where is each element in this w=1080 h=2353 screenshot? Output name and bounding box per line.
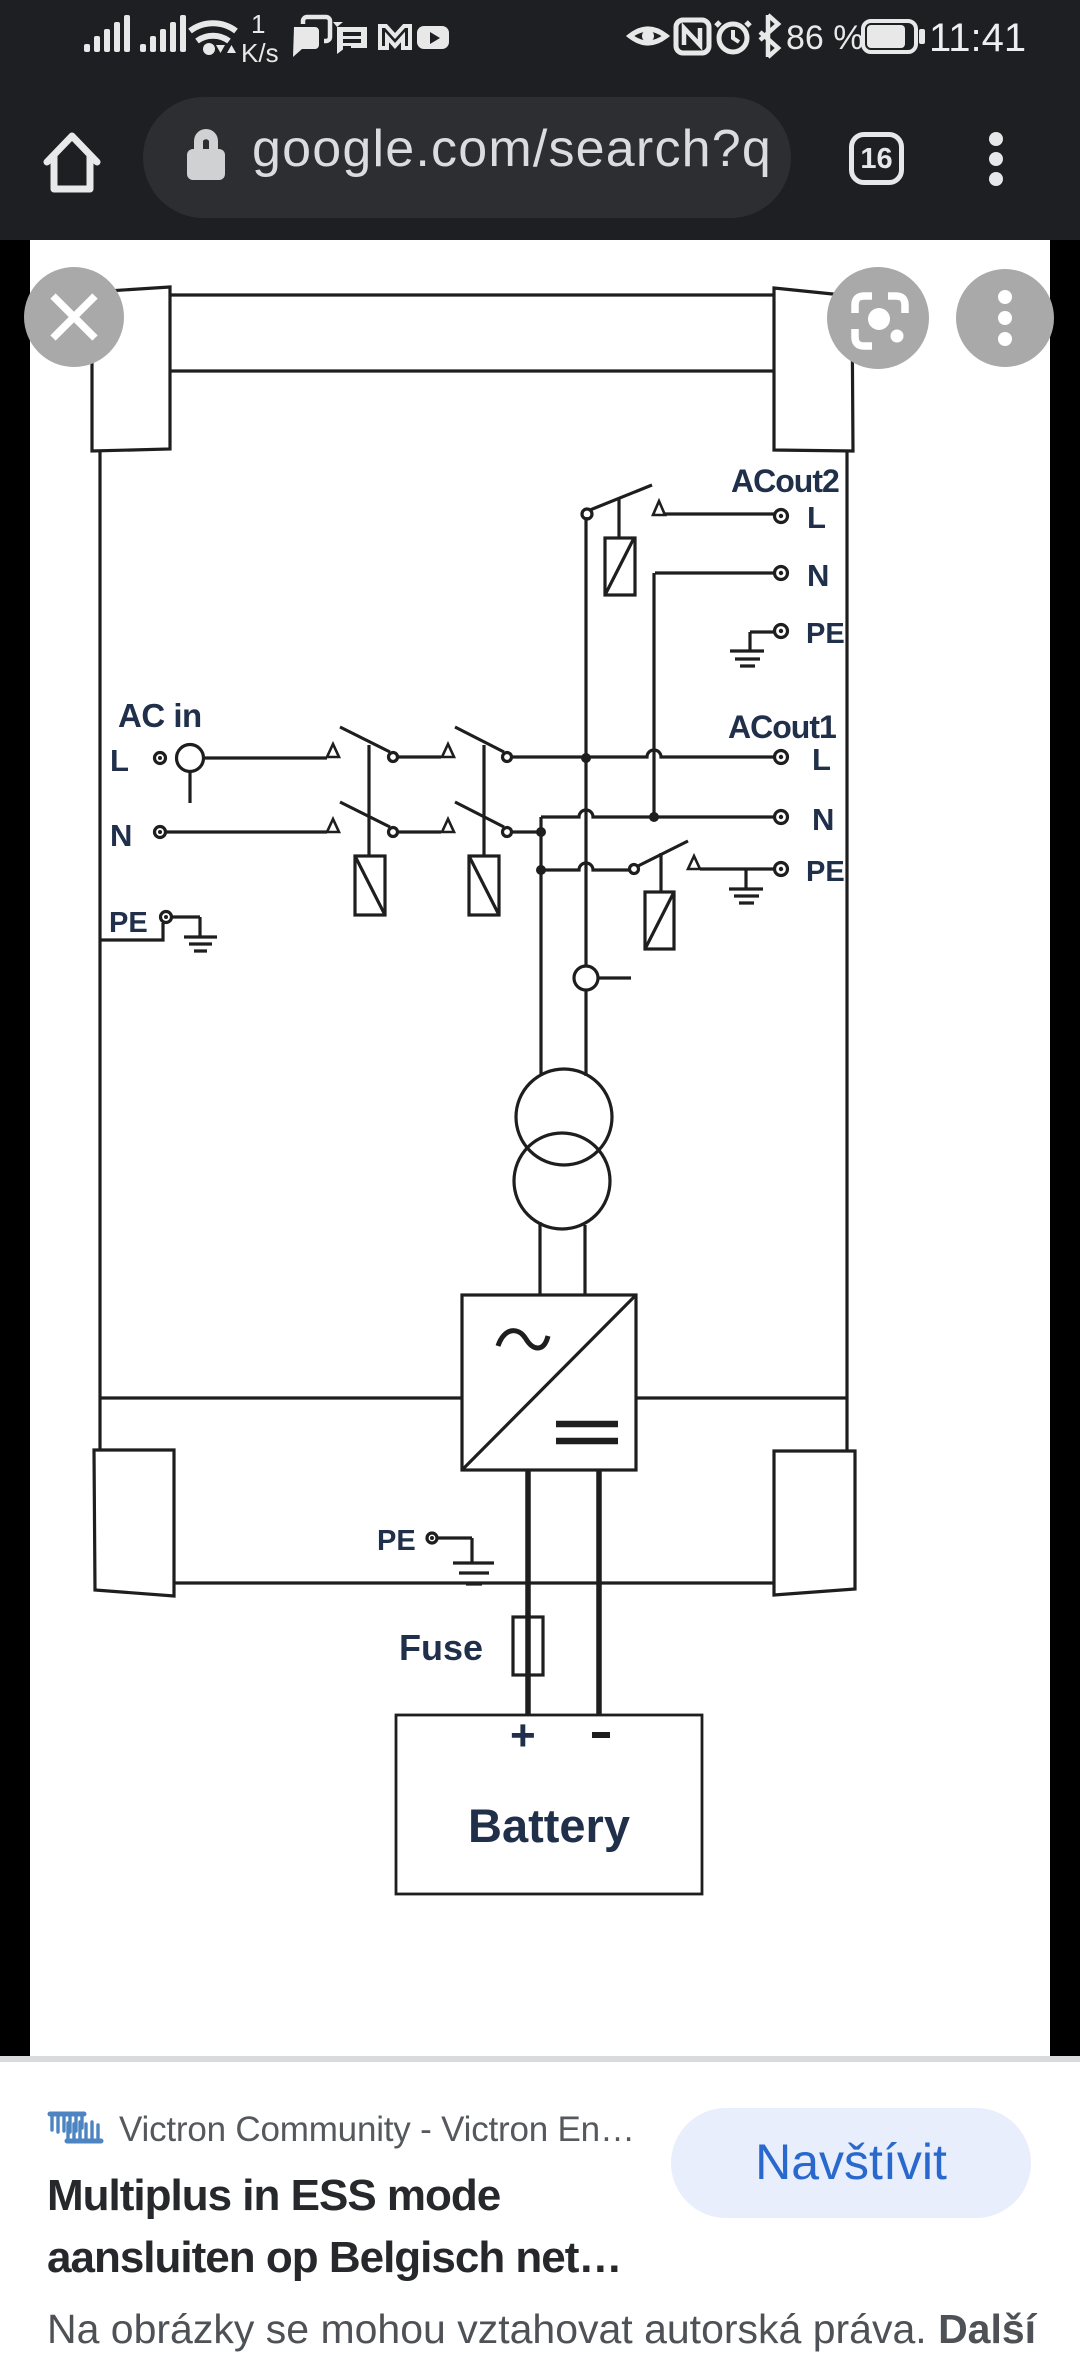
node: N bus vertical to transformer — [539, 817, 542, 1076]
wire between relay contacts N — [398, 830, 441, 833]
svg-text:AC in: AC in — [118, 697, 202, 734]
battery B1 box — [396, 1715, 702, 1894]
svg-text:N: N — [812, 802, 834, 837]
svg-text:1: 1 — [251, 9, 265, 39]
status: signal bars 1 — [84, 15, 130, 52]
svg-text:N: N — [807, 558, 829, 593]
ground ACout2 PE — [730, 651, 764, 666]
svg-text:Fuse: Fuse — [399, 1627, 483, 1668]
terminal ACout1 N — [775, 811, 788, 824]
relay K3 contact (ACout2 L switch) — [582, 509, 592, 519]
relay K4 coil — [645, 892, 674, 949]
fuse F1 — [513, 1617, 543, 1675]
wire battery negative lead — [596, 1470, 602, 1716]
relay K1 contact N pole — [340, 802, 390, 827]
toolbar: home icon — [47, 136, 97, 189]
wire N switch output — [512, 830, 541, 833]
wire transformer to inverter right — [583, 1225, 586, 1295]
transformer winding primary — [516, 1069, 612, 1165]
CT ring on AC in L — [177, 745, 204, 772]
status: gmail icon — [380, 26, 410, 48]
ground chassis PE — [453, 1563, 494, 1584]
wire between relay contacts L — [398, 755, 441, 758]
wire ACout2 PE — [750, 632, 774, 650]
status: signal bars 2 — [140, 15, 186, 52]
relay K3 coil — [605, 538, 635, 595]
terminal ACout1 L — [775, 751, 788, 764]
wire ACout2 N vertical drop — [652, 573, 655, 817]
relay K2 contact L pole — [455, 727, 504, 752]
svg-text:86 %: 86 % — [786, 19, 864, 57]
terminal ACout2 PE — [775, 625, 788, 638]
wire transformer to inverter left — [538, 1222, 541, 1295]
triangle marker relay 2 N — [442, 819, 454, 832]
transformer winding secondary — [514, 1133, 610, 1229]
relay K2 actuator link — [482, 745, 485, 856]
enclosure left edge — [98, 449, 101, 1451]
relay K1 contact L pole — [340, 727, 390, 752]
svg-text:+: + — [510, 1711, 536, 1760]
overlay lens button — [827, 267, 929, 369]
relay K4 ground relay contact — [630, 865, 639, 874]
status: wifi — [190, 23, 236, 41]
terminal ACout2 N — [775, 567, 788, 580]
status: messages icon — [333, 22, 367, 54]
terminal AC in N — [155, 827, 166, 838]
overlay close button — [24, 267, 124, 367]
ground ACout1 PE — [729, 869, 763, 903]
wire L bus to ACout1 L terminal (hop over N drop) — [512, 750, 774, 757]
status: nfc icon — [676, 20, 709, 53]
relay K1 actuator link — [367, 745, 370, 856]
junction node ground relay tap — [536, 865, 546, 875]
wire chassis PE — [438, 1538, 472, 1562]
enclosure bottom rail line 2 — [174, 1581, 774, 1584]
triangle marker relay 1 N — [327, 819, 339, 832]
svg-text:L: L — [110, 743, 129, 778]
svg-text:Battery: Battery — [468, 1799, 630, 1852]
wire ground relay feed (hop over L bus) — [541, 863, 629, 870]
wire AC in PE — [172, 917, 200, 936]
relay K2 coil — [469, 856, 499, 915]
relay K1 coil — [355, 856, 385, 915]
enclosure top rail line 1 — [168, 293, 777, 296]
enclosure bottom rail line 1 — [100, 1396, 847, 1399]
terminal AC in L — [155, 753, 166, 764]
wire ACout2 N — [655, 571, 774, 574]
status: youtube icon — [417, 26, 449, 49]
wire ACout2 L to terminal — [665, 512, 774, 515]
svg-text:11:41: 11:41 — [929, 16, 1026, 60]
overlay menu button — [956, 269, 1054, 367]
status: bluetooth icon — [760, 15, 778, 57]
wire AC in L — [204, 756, 327, 759]
svg-text:PE: PE — [806, 856, 845, 888]
junction node ACout2-N to ACout1-N — [649, 812, 659, 822]
wire AC in N — [166, 830, 327, 833]
enclosure top rail line 2 — [168, 369, 776, 372]
wire PE to chassis — [100, 923, 163, 940]
svg-text:ACout2: ACout2 — [731, 463, 839, 499]
node: vertical bus from ACout2 switch to transformer — [584, 517, 587, 1076]
mounting flange bottom-left — [94, 1450, 174, 1596]
svg-text:ACout1: ACout1 — [728, 709, 836, 745]
terminal chassis PE — [427, 1533, 437, 1543]
svg-text:L: L — [807, 500, 826, 535]
status: alarm icon — [719, 24, 747, 52]
wire ACout1 N (hop over L bus vertical) — [541, 810, 774, 817]
wire battery positive lead — [525, 1470, 531, 1716]
svg-text:K/s: K/s — [241, 38, 279, 68]
triangle marker ACout2 L — [653, 501, 665, 515]
mounting flange top-right — [774, 288, 853, 451]
terminal ACout2 L — [775, 510, 788, 523]
inverter AC symbol — [498, 1331, 548, 1348]
mounting flange top-left — [92, 287, 170, 451]
battery minus sign — [592, 1732, 610, 1738]
triangle marker relay 2 L — [442, 744, 454, 757]
enclosure right edge — [845, 450, 848, 1452]
status: battery icon — [863, 21, 916, 52]
svg-text:PE: PE — [377, 1525, 416, 1557]
svg-text:PE: PE — [109, 907, 148, 939]
mounting flange bottom-right — [774, 1451, 855, 1595]
triangle marker ground relay — [688, 856, 700, 869]
junction node N switch to N bus — [536, 827, 546, 837]
status: eye icon — [630, 29, 666, 43]
relay K2 contact N pole — [455, 802, 504, 827]
terminal AC in PE — [161, 912, 172, 923]
wire ground relay to ACout1 PE — [700, 867, 774, 870]
toolbar: menu dots — [989, 132, 1003, 146]
svg-text:PE: PE — [806, 618, 845, 650]
junction node L bus — [581, 753, 591, 763]
inverter DC symbol — [556, 1424, 618, 1441]
triangle marker relay 1 L — [327, 744, 339, 757]
svg-text:L: L — [812, 742, 831, 777]
svg-text:N: N — [110, 818, 132, 853]
ground AC in PE — [184, 937, 217, 951]
inverter/charger U1 box — [462, 1295, 636, 1470]
toolbar: tab counter — [849, 132, 904, 185]
lock icon — [187, 129, 225, 180]
status: chat icon — [303, 17, 330, 41]
terminal ACout1 PE — [775, 863, 788, 876]
CT ring on L bus — [574, 966, 598, 990]
